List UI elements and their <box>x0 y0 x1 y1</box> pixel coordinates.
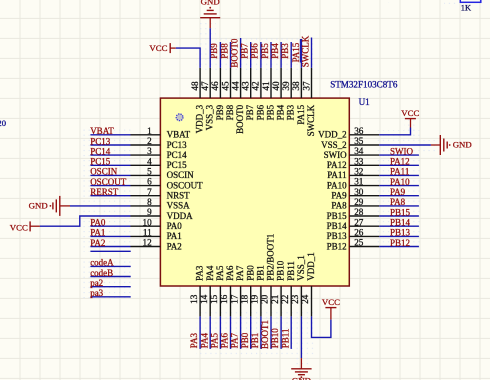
svg-text:25: 25 <box>354 238 364 248</box>
svg-text:PB15: PB15 <box>327 211 348 221</box>
wire net PA2 <box>90 246 130 248</box>
pin 29 PA8 <box>349 205 379 207</box>
svg-text:PB10: PB10 <box>270 328 280 349</box>
pin 27 PB14 <box>349 225 379 227</box>
svg-text:23: 23 <box>290 294 300 304</box>
pin 9 VDDA <box>131 215 161 217</box>
svg-text:VBAT: VBAT <box>167 130 191 140</box>
wire net PB5 <box>270 42 272 68</box>
svg-text:43: 43 <box>241 81 251 91</box>
svg-text:19: 19 <box>250 294 260 304</box>
svg-text:PB3: PB3 <box>280 43 290 59</box>
resistor R? 1K partially cut at top edge <box>460 0 481 2</box>
wire net PA7 <box>240 316 242 349</box>
wire GND to pin 8 <box>70 205 131 207</box>
svg-text:4: 4 <box>147 156 152 166</box>
svg-text:17: 17 <box>229 294 239 304</box>
pin 44 BOOT0 <box>240 68 242 98</box>
svg-text:PB6: PB6 <box>255 104 265 120</box>
wire net PB10 <box>280 316 282 349</box>
wire net PA11 <box>379 174 419 176</box>
svg-text:OSCIN: OSCIN <box>90 167 118 177</box>
svg-text:42: 42 <box>251 81 261 91</box>
svg-text:VSS_3: VSS_3 <box>205 104 215 130</box>
svg-text:VBAT: VBAT <box>90 126 114 136</box>
svg-text:U1: U1 <box>359 97 370 107</box>
svg-text:VDD_2: VDD_2 <box>318 130 347 140</box>
svg-text:PB11: PB11 <box>280 329 290 349</box>
pin 22 PB11 <box>290 286 292 316</box>
wire pin 35 to GND <box>379 144 431 146</box>
svg-text:5: 5 <box>147 167 152 177</box>
pin 13 PA3 <box>199 286 201 316</box>
pin 21 PB10 <box>280 286 282 316</box>
wire net SWCLK <box>311 38 313 68</box>
wire net PC13 <box>90 144 130 146</box>
pin 26 PB13 <box>349 235 379 237</box>
svg-text:GND: GND <box>29 201 48 211</box>
svg-text:PB7: PB7 <box>240 43 250 59</box>
pin 10 PA0 <box>131 225 161 227</box>
svg-text:39: 39 <box>281 81 291 91</box>
pin 8 VSSA <box>131 205 161 207</box>
svg-text:PA7: PA7 <box>230 333 240 349</box>
svg-text:PB1: PB1 <box>250 333 260 349</box>
svg-text:PB13: PB13 <box>327 231 348 241</box>
pin 34 SWIO <box>349 154 379 156</box>
svg-text:47: 47 <box>200 81 210 91</box>
unconnected wire stub below PA2 <box>90 250 130 252</box>
svg-text:PC14: PC14 <box>167 150 188 160</box>
pin 18 PB0 <box>250 286 252 316</box>
pin 48 VDD_3 <box>199 68 201 98</box>
svg-text:29: 29 <box>354 197 364 207</box>
wire net BOOT1 <box>270 316 272 349</box>
pin 3 PC14 <box>131 154 161 156</box>
svg-text:PB14: PB14 <box>390 218 411 228</box>
svg-text:15: 15 <box>209 294 219 304</box>
wire net PC14 <box>90 154 130 156</box>
svg-text:PA1: PA1 <box>167 231 182 241</box>
wire net BOOT0 <box>240 38 242 68</box>
svg-text:PB5: PB5 <box>260 43 270 59</box>
svg-text:36: 36 <box>354 126 364 136</box>
wire net PA9 <box>379 195 419 197</box>
svg-text:PC13: PC13 <box>167 140 188 150</box>
wire net PB9 <box>219 42 221 68</box>
svg-text:41: 41 <box>261 81 271 91</box>
pin 47 VSS_3 <box>209 68 211 98</box>
wire net PA3 <box>199 316 201 349</box>
svg-text:PB1: PB1 <box>256 265 266 281</box>
svg-text:PB4: PB4 <box>270 43 280 59</box>
wire net PA4 <box>209 316 211 349</box>
svg-text:PA10: PA10 <box>390 177 410 187</box>
wire net PB4 <box>280 42 282 68</box>
svg-text:32: 32 <box>354 167 364 177</box>
svg-text:20: 20 <box>260 294 270 304</box>
wire net RERST <box>90 195 130 197</box>
wire stub pa3 <box>90 296 130 298</box>
pin 42 PB6 <box>260 68 262 98</box>
svg-text:STM32F103C8T6: STM32F103C8T6 <box>330 80 398 90</box>
svg-text:7: 7 <box>147 187 152 197</box>
wire stub codeA <box>90 265 130 267</box>
pin 15 PA5 <box>219 286 221 316</box>
svg-text:PB7: PB7 <box>245 104 255 120</box>
wire net PB6 <box>260 42 262 68</box>
wire net PA1 <box>90 235 130 237</box>
svg-text:NRST: NRST <box>167 191 191 201</box>
svg-text:31: 31 <box>354 177 364 187</box>
svg-text:12: 12 <box>143 238 153 248</box>
svg-text:PA12: PA12 <box>390 157 410 167</box>
svg-text:SWCLK: SWCLK <box>300 35 310 67</box>
pin 41 PB5 <box>270 68 272 98</box>
svg-text:PA15: PA15 <box>296 104 306 124</box>
svg-text:PA1: PA1 <box>90 228 105 238</box>
svg-text:PA8: PA8 <box>331 201 347 211</box>
pin 37 SWCLK <box>311 68 313 98</box>
svg-text:PA11: PA11 <box>390 167 409 177</box>
svg-text:PB10: PB10 <box>276 260 286 281</box>
svg-text:BOOT0: BOOT0 <box>235 104 245 133</box>
svg-text:21: 21 <box>270 294 280 304</box>
svg-text:pa3: pa3 <box>90 288 103 298</box>
pin 45 PB8 <box>230 68 232 98</box>
pin 28 PB15 <box>349 215 379 217</box>
wire net PA10 <box>379 185 419 187</box>
svg-text:8: 8 <box>147 197 152 207</box>
svg-text:RERST: RERST <box>90 187 119 197</box>
svg-text:33: 33 <box>354 156 364 166</box>
svg-text:1: 1 <box>147 126 152 136</box>
wire net PB1 <box>260 316 262 349</box>
pin 12 PA2 <box>131 246 161 248</box>
svg-text:PA4: PA4 <box>199 333 209 349</box>
svg-text:16: 16 <box>219 294 229 304</box>
wire VCC to pin 24 <box>312 316 331 337</box>
pin 14 PA4 <box>209 286 211 316</box>
svg-text:3: 3 <box>147 146 152 156</box>
svg-text:35: 35 <box>354 136 364 146</box>
svg-text:PB12: PB12 <box>390 238 410 248</box>
wire net PB14 <box>379 225 419 227</box>
svg-text:GND: GND <box>201 0 220 7</box>
svg-text:PA12: PA12 <box>327 160 347 170</box>
svg-text:PA9: PA9 <box>331 191 347 201</box>
svg-text:PA0: PA0 <box>90 218 106 228</box>
wire pin 23 to GND <box>300 316 302 358</box>
svg-text:SWCLK: SWCLK <box>306 104 316 136</box>
svg-text:OSCOUT: OSCOUT <box>90 177 127 187</box>
svg-text:9: 9 <box>147 207 152 217</box>
svg-text:PB3: PB3 <box>286 104 296 120</box>
pin 40 PB4 <box>280 68 282 98</box>
wire net PB0 <box>250 316 252 349</box>
pin 46 PB9 <box>219 68 221 98</box>
wire GND to pin 47 <box>209 28 211 68</box>
pin 24 VDD_1 <box>311 286 313 316</box>
pin 30 PA9 <box>349 195 379 197</box>
wire net PB13 <box>379 235 419 237</box>
pin 20 PB2/BOOT1 <box>270 286 272 316</box>
svg-text:VSS_2: VSS_2 <box>321 140 347 150</box>
svg-text:PA10: PA10 <box>327 180 347 190</box>
mcu U1 body STM32F103C8T6 <box>160 98 349 286</box>
svg-text:GND: GND <box>453 140 472 150</box>
svg-text:1K: 1K <box>461 3 471 12</box>
pin 5 OSCIN <box>131 174 161 176</box>
svg-text:PB15: PB15 <box>390 207 411 217</box>
svg-text:PC15: PC15 <box>167 160 188 170</box>
wire net OSCIN <box>90 174 130 176</box>
svg-text:VCC: VCC <box>322 297 340 307</box>
svg-text:codeB: codeB <box>90 268 113 278</box>
svg-text:44: 44 <box>230 81 240 91</box>
svg-text:PB4: PB4 <box>276 104 286 120</box>
svg-text:2: 2 <box>147 136 152 146</box>
wire net PA8 <box>379 205 419 207</box>
pin 19 PB1 <box>260 286 262 316</box>
wire VCC to pin 48 <box>176 48 200 68</box>
wire net PB12 <box>379 246 419 248</box>
svg-text:PB2/BOOT1: PB2/BOOT1 <box>266 234 276 281</box>
svg-text:PA6: PA6 <box>220 333 230 349</box>
svg-text:PB0: PB0 <box>240 332 250 348</box>
svg-text:PB11: PB11 <box>286 261 296 281</box>
wire stub pa2 <box>90 286 130 288</box>
svg-text:codeA: codeA <box>90 258 114 268</box>
pin 16 PA6 <box>230 286 232 316</box>
svg-text:PB0: PB0 <box>245 265 255 281</box>
svg-text:PB12: PB12 <box>327 241 347 251</box>
svg-text:BOOT0: BOOT0 <box>229 38 239 67</box>
svg-text:18: 18 <box>239 294 249 304</box>
svg-text:VDD_1: VDD_1 <box>306 252 316 281</box>
svg-text:SWIO: SWIO <box>324 150 347 160</box>
svg-text:PB6: PB6 <box>250 43 260 59</box>
svg-text:SWIO: SWIO <box>390 146 413 156</box>
svg-text:VDDA: VDDA <box>167 211 193 221</box>
svg-text:34: 34 <box>354 146 364 156</box>
svg-text:45: 45 <box>220 81 230 91</box>
svg-text:VCC: VCC <box>10 222 28 232</box>
wire net PB11 <box>290 316 292 349</box>
wire VCC to pin 36 <box>379 128 410 135</box>
pin 1 indicator <box>176 114 183 121</box>
wire net PB3 <box>290 42 292 68</box>
svg-text:PB9: PB9 <box>215 104 225 120</box>
wire net PB8 <box>230 42 232 68</box>
svg-text:20: 20 <box>0 118 6 128</box>
svg-text:10: 10 <box>143 217 153 227</box>
pin 33 PA12 <box>349 164 379 166</box>
svg-text:OSCOUT: OSCOUT <box>167 180 204 190</box>
svg-text:24: 24 <box>300 294 310 304</box>
svg-text:VCC: VCC <box>401 108 419 118</box>
svg-text:14: 14 <box>199 294 209 304</box>
svg-text:26: 26 <box>354 228 364 238</box>
svg-text:46: 46 <box>210 81 220 91</box>
svg-text:PB13: PB13 <box>390 228 411 238</box>
svg-text:VDD_3: VDD_3 <box>195 104 205 133</box>
svg-text:PA0: PA0 <box>167 221 183 231</box>
pin 2 PC13 <box>131 144 161 146</box>
pin 11 PA1 <box>131 235 161 237</box>
svg-text:VSS_1: VSS_1 <box>296 255 306 281</box>
wire net PA15 <box>300 39 302 68</box>
svg-text:PA3: PA3 <box>189 333 199 349</box>
pin 36 VDD_2 <box>349 134 379 136</box>
svg-text:PA2: PA2 <box>167 241 182 251</box>
svg-text:13: 13 <box>189 294 199 304</box>
wire VCC to pin 9 VDDA <box>40 216 131 226</box>
wire net PA0 <box>90 225 130 227</box>
svg-text:OSCIN: OSCIN <box>167 170 195 180</box>
svg-text:VSSA: VSSA <box>167 201 191 211</box>
svg-text:PA3: PA3 <box>195 265 205 281</box>
svg-text:40: 40 <box>271 81 281 91</box>
svg-text:GND: GND <box>292 376 311 380</box>
pin 38 PA15 <box>300 68 302 98</box>
svg-text:37: 37 <box>301 81 311 91</box>
svg-text:28: 28 <box>354 207 364 217</box>
svg-text:48: 48 <box>190 81 200 91</box>
pin 7 NRST <box>131 195 161 197</box>
svg-text:PA6: PA6 <box>225 265 235 281</box>
svg-text:PA4: PA4 <box>205 265 215 281</box>
wire net SWIO <box>379 154 419 156</box>
svg-text:38: 38 <box>291 81 301 91</box>
svg-text:PA7: PA7 <box>235 265 245 281</box>
svg-text:PB8: PB8 <box>219 43 229 59</box>
wire net OSCOUT <box>90 185 130 187</box>
pin 6 OSCOUT <box>131 185 161 187</box>
wire net PB7 <box>250 42 252 68</box>
svg-text:30: 30 <box>354 187 364 197</box>
wire net PA12 <box>379 164 419 166</box>
pin 39 PB3 <box>290 68 292 98</box>
svg-text:PB8: PB8 <box>225 104 235 120</box>
svg-text:pa2: pa2 <box>90 278 103 288</box>
svg-text:PA8: PA8 <box>390 197 406 207</box>
wire net PC15 <box>90 164 130 166</box>
pin 23 VSS_1 <box>300 286 302 316</box>
svg-text:27: 27 <box>354 217 364 227</box>
svg-text:PA5: PA5 <box>215 265 225 281</box>
wire stub codeB <box>90 276 130 278</box>
pin 35 VSS_2 <box>349 144 379 146</box>
pin 31 PA10 <box>349 185 379 187</box>
svg-text:PC15: PC15 <box>90 157 111 167</box>
pin 32 PA11 <box>349 174 379 176</box>
pin 17 PA7 <box>240 286 242 316</box>
svg-text:PA2: PA2 <box>90 238 105 248</box>
svg-text:PA5: PA5 <box>210 333 220 349</box>
svg-text:PC13: PC13 <box>90 136 111 146</box>
svg-text:VCC: VCC <box>149 43 167 53</box>
svg-text:PC14: PC14 <box>90 146 111 156</box>
svg-text:PB14: PB14 <box>327 221 348 231</box>
wire net PA6 <box>230 316 232 349</box>
svg-text:BOOT1: BOOT1 <box>260 320 270 349</box>
svg-text:22: 22 <box>280 294 290 304</box>
wire net VBAT <box>90 134 130 136</box>
pin 43 PB7 <box>250 68 252 98</box>
wire net PA5 <box>219 316 221 349</box>
wire net PB15 <box>379 215 419 217</box>
svg-text:11: 11 <box>143 228 152 238</box>
pin 1 VBAT <box>131 134 161 136</box>
svg-text:PB5: PB5 <box>265 104 275 120</box>
svg-text:6: 6 <box>147 177 152 187</box>
svg-text:PA11: PA11 <box>327 170 346 180</box>
svg-text:PA9: PA9 <box>390 187 406 197</box>
pin 4 PC15 <box>131 164 161 166</box>
pin 25 PB12 <box>349 246 379 248</box>
